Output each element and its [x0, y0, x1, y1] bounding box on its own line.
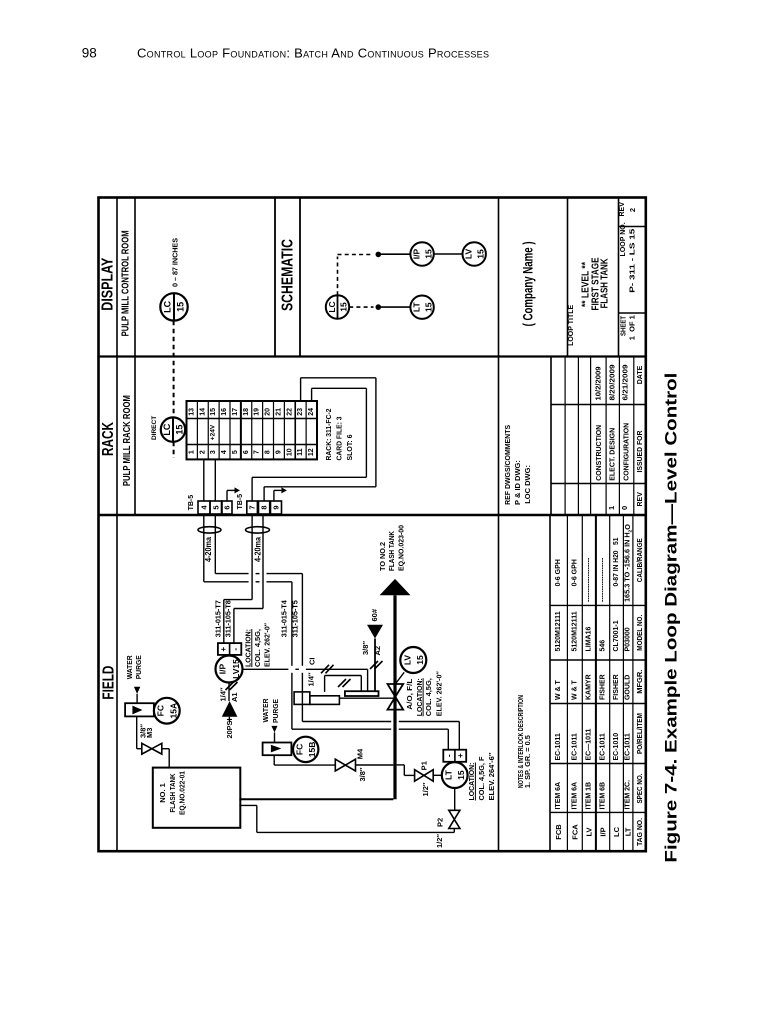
svg-text:22: 22 — [286, 408, 293, 416]
svg-text:I/P: I/P — [412, 248, 422, 259]
svg-text:21: 21 — [275, 408, 282, 416]
svg-text:ELECT. DESIGN: ELECT. DESIGN — [610, 428, 617, 481]
svg-text:Control Loop Foundation: Batch: Control Loop Foundation: Batch And Conti… — [137, 45, 489, 60]
svg-text:0 – 87 INCHES: 0 – 87 INCHES — [171, 238, 180, 287]
svg-text:-------------------: ------------------- — [586, 557, 593, 602]
svg-text:TAG NO.: TAG NO. — [635, 818, 644, 846]
svg-text:FIELD: FIELD — [100, 666, 117, 700]
svg-text:-: - — [231, 648, 240, 651]
svg-text:FISHER: FISHER — [613, 674, 620, 700]
svg-text:3: 3 — [210, 450, 217, 454]
svg-text:311-015-T4: 311-015-T4 — [282, 600, 289, 637]
svg-text:15: 15 — [456, 770, 466, 780]
svg-text:15A: 15A — [168, 703, 178, 719]
svg-text:1: 1 — [188, 450, 195, 454]
svg-text:0-6 GPH: 0-6 GPH — [571, 559, 578, 586]
svg-text:FLASH TANK: FLASH TANK — [168, 773, 177, 812]
svg-text:ELEV. 264'-6″: ELEV. 264'-6″ — [487, 752, 496, 800]
svg-text:REF DWGS/COMMENTS: REF DWGS/COMMENTS — [503, 425, 512, 505]
svg-text:SHEET: SHEET — [621, 315, 628, 336]
svg-text:165.3 TO -156.6 IN H2O: 165.3 TO -156.6 IN H2O — [625, 523, 632, 602]
svg-text:10/2/2009: 10/2/2009 — [595, 366, 602, 400]
svg-text:DIRECT: DIRECT — [151, 416, 158, 440]
svg-text:RACK: RACK — [100, 422, 117, 456]
svg-text:9: 9 — [275, 450, 282, 454]
svg-text:CALIB/RANGE: CALIB/RANGE — [635, 538, 644, 582]
svg-text:1/4″: 1/4″ — [307, 672, 316, 686]
svg-text:7: 7 — [248, 505, 257, 509]
svg-text:18: 18 — [243, 408, 250, 416]
svg-text:KAMYR: KAMYR — [586, 674, 593, 700]
svg-text:5120M12111: 5120M12111 — [571, 611, 578, 651]
svg-text:ITEM 2C.: ITEM 2C. — [625, 780, 632, 810]
svg-text:16: 16 — [221, 408, 228, 416]
svg-text:EC-1011: EC-1011 — [599, 733, 606, 760]
svg-text:LC: LC — [327, 301, 337, 312]
svg-text:MODEL NO.: MODEL NO. — [635, 615, 644, 651]
svg-text:P2: P2 — [435, 818, 444, 827]
svg-text:CONSTRUCTION: CONSTRUCTION — [596, 425, 603, 481]
svg-text:A2: A2 — [373, 646, 382, 656]
svg-text:LC: LC — [163, 300, 173, 312]
svg-text:19: 19 — [254, 408, 261, 416]
svg-text:SLOT: 6: SLOT: 6 — [345, 435, 354, 461]
svg-text:11: 11 — [297, 448, 304, 456]
svg-text:LOOP TITLE: LOOP TITLE — [568, 304, 575, 345]
svg-text:P1: P1 — [420, 761, 429, 770]
svg-text:0: 0 — [620, 506, 629, 510]
svg-text:ITEM 6A: ITEM 6A — [555, 782, 562, 810]
svg-text:ELEV. 262'-0″: ELEV. 262'-0″ — [263, 623, 272, 667]
svg-text:P- 311 - LS 15: P- 311 - LS 15 — [628, 229, 637, 293]
svg-text:4: 4 — [221, 450, 228, 454]
svg-text:15: 15 — [475, 249, 485, 259]
svg-text:CONFIGURATION: CONFIGURATION — [623, 423, 630, 481]
svg-text:LV: LV — [585, 827, 594, 836]
svg-text:PULP MILL RACK ROOM: PULP MILL RACK ROOM — [122, 395, 133, 486]
svg-text:4-20ma: 4-20ma — [204, 537, 213, 562]
svg-text:10: 10 — [286, 448, 293, 456]
svg-text:15: 15 — [423, 302, 433, 312]
svg-text:6: 6 — [243, 450, 250, 454]
svg-text:LOOP NO.: LOOP NO. — [620, 222, 627, 256]
svg-text:EC-1010: EC-1010 — [613, 733, 620, 761]
svg-text:SPEC NO.: SPEC NO. — [635, 774, 644, 804]
svg-text:311-105-T5: 311-105-T5 — [293, 600, 300, 637]
svg-text:12: 12 — [308, 448, 315, 456]
svg-text:5120M12111: 5120M12111 — [555, 611, 562, 651]
svg-text:LT: LT — [624, 827, 633, 836]
svg-text:MFGR.: MFGR. — [635, 670, 644, 694]
svg-text:ELEV. 262'-0″: ELEV. 262'-0″ — [435, 671, 444, 716]
svg-text:LV15: LV15 — [231, 659, 241, 679]
svg-text:EQ.NO.023-00: EQ.NO.023-00 — [397, 525, 406, 571]
svg-text:LV: LV — [402, 655, 412, 666]
svg-text:REV: REV — [637, 492, 644, 507]
svg-text:15: 15 — [423, 249, 433, 259]
svg-text:M3: M3 — [145, 728, 154, 738]
svg-text:Figure 7-4. Example Loop Diagr: Figure 7-4. Example Loop Diagram—Level C… — [662, 373, 681, 863]
svg-text:LT: LT — [412, 302, 422, 313]
svg-text:FLASH TANK: FLASH TANK — [600, 258, 611, 309]
svg-text:3/8″: 3/8″ — [361, 641, 370, 655]
svg-text:-: - — [445, 754, 454, 757]
svg-text:20: 20 — [265, 408, 272, 416]
svg-text:LOCATION:: LOCATION: — [467, 763, 476, 801]
svg-text:RACK: 311-FC-2: RACK: 311-FC-2 — [324, 409, 333, 461]
svg-text:311-105-T8: 311-105-T8 — [226, 600, 233, 637]
svg-text:A/O, F/L: A/O, F/L — [405, 678, 414, 709]
svg-text:CL7001-1: CL7001-1 — [613, 620, 620, 651]
svg-text:FCB: FCB — [554, 824, 563, 840]
svg-text:M4: M4 — [356, 748, 365, 759]
svg-text:23: 23 — [297, 408, 304, 416]
svg-text:FLASH TANK: FLASH TANK — [387, 531, 396, 571]
svg-text:NO. 1: NO. 1 — [158, 783, 167, 803]
svg-text:1 OF 1: 1 OF 1 — [628, 315, 637, 340]
svg-text:FC: FC — [295, 744, 305, 755]
svg-text:ITEM 6A: ITEM 6A — [571, 782, 578, 810]
svg-text:W & T: W & T — [555, 679, 562, 700]
svg-text:14: 14 — [199, 408, 206, 416]
svg-text:FC: FC — [156, 705, 166, 716]
svg-text:20PSI: 20PSI — [225, 719, 234, 739]
svg-text:LOC DWG:: LOC DWG: — [523, 465, 532, 504]
svg-text:2: 2 — [628, 208, 637, 212]
svg-text:WATER: WATER — [125, 655, 134, 680]
svg-text:7: 7 — [254, 450, 261, 454]
svg-text:0-6 GPH: 0-6 GPH — [555, 559, 562, 586]
svg-text:LV: LV — [464, 249, 474, 260]
svg-text:EC—1011: EC—1011 — [586, 728, 593, 760]
svg-text:1/4″: 1/4″ — [219, 687, 228, 701]
svg-text:EC-1011: EC-1011 — [555, 733, 562, 760]
svg-text:LC: LC — [162, 423, 172, 435]
svg-text:I/P: I/P — [218, 663, 228, 674]
svg-text:LOCATION:: LOCATION: — [244, 629, 253, 667]
svg-text:PULP MILL CONTROL ROOM: PULP MILL CONTROL ROOM — [121, 230, 132, 336]
svg-text:CI: CI — [308, 658, 317, 666]
svg-text:8/20/2009: 8/20/2009 — [610, 364, 617, 400]
svg-text:3/8″: 3/8″ — [358, 767, 367, 781]
svg-text:LC: LC — [612, 826, 621, 837]
svg-text:COL. 4,5G,: COL. 4,5G, — [253, 629, 262, 667]
svg-text:A1: A1 — [230, 692, 239, 702]
svg-text:0-87 IN H20 51: 0-87 IN H20 51 — [613, 537, 620, 586]
svg-text:SCHEMATIC: SCHEMATIC — [280, 239, 297, 311]
svg-text:FISHER: FISHER — [599, 674, 606, 700]
svg-text:CARD FILE: 3: CARD FILE: 3 — [335, 417, 344, 461]
svg-text:60#: 60# — [370, 608, 379, 621]
svg-text:8: 8 — [265, 450, 272, 454]
svg-text:13: 13 — [188, 408, 195, 416]
svg-text:TB-5: TB-5 — [188, 495, 195, 511]
svg-text:1. SP. GR. = 0.5: 1. SP. GR. = 0.5 — [523, 735, 532, 788]
svg-text:9: 9 — [272, 505, 281, 509]
svg-text:17: 17 — [232, 408, 239, 416]
svg-text:( Company Name ): ( Company Name ) — [519, 241, 535, 326]
svg-text:LIMA16: LIMA16 — [586, 627, 593, 652]
svg-text:ISSUED FOR: ISSUED FOR — [637, 431, 644, 473]
svg-text:TO NO.2: TO NO.2 — [378, 542, 387, 571]
svg-text:5: 5 — [232, 450, 239, 454]
svg-text:P & ID DWG:: P & ID DWG: — [513, 460, 522, 505]
svg-text:24: 24 — [308, 408, 315, 416]
svg-text:6: 6 — [223, 505, 232, 509]
svg-text:W & T: W & T — [571, 679, 578, 700]
svg-text:15B: 15B — [307, 742, 317, 758]
svg-text:ITEM 1B: ITEM 1B — [586, 782, 593, 810]
svg-text:I/P: I/P — [598, 827, 607, 836]
svg-text:546: 546 — [599, 640, 606, 652]
svg-text:P03000: P03000 — [625, 627, 632, 651]
svg-text:4-20ma: 4-20ma — [253, 537, 262, 562]
svg-text:COL. 4,5G, F: COL. 4,5G, F — [477, 756, 486, 800]
svg-text:LOCATION:: LOCATION: — [415, 678, 424, 716]
svg-text:15: 15 — [339, 302, 349, 312]
svg-text:15: 15 — [415, 655, 425, 665]
svg-text:+: + — [219, 647, 228, 652]
svg-text:8: 8 — [260, 505, 269, 509]
svg-text:1/2″: 1/2″ — [421, 782, 430, 796]
svg-text:+24V: +24V — [209, 424, 216, 440]
svg-text:15: 15 — [210, 408, 217, 416]
svg-text:EC-1011: EC-1011 — [571, 733, 578, 760]
svg-text:+: + — [456, 753, 465, 758]
svg-text:PO/REL/ITEM: PO/REL/ITEM — [635, 713, 644, 754]
svg-text:TB-5: TB-5 — [237, 494, 244, 510]
svg-text:15: 15 — [176, 302, 186, 312]
svg-text:98: 98 — [82, 46, 97, 61]
svg-text:6/21/2009: 6/21/2009 — [623, 364, 630, 400]
svg-text:EC-1011: EC-1011 — [625, 733, 632, 760]
svg-text:1: 1 — [607, 506, 616, 510]
svg-text:ITEM 6B: ITEM 6B — [599, 782, 606, 810]
svg-text:REV: REV — [619, 202, 626, 217]
svg-text:15: 15 — [174, 425, 184, 435]
svg-text:311-015-T7: 311-015-T7 — [215, 600, 222, 637]
svg-text:DISPLAY: DISPLAY — [99, 257, 116, 310]
svg-text:2: 2 — [199, 450, 206, 454]
svg-text:WATER: WATER — [261, 698, 270, 723]
svg-text:PURGE: PURGE — [271, 699, 280, 723]
svg-text:GOULD: GOULD — [625, 675, 632, 700]
svg-text:EQ.NO.022-01: EQ.NO.022-01 — [178, 771, 187, 815]
svg-text:LT: LT — [444, 769, 454, 780]
svg-text:DATE: DATE — [637, 365, 644, 384]
svg-text:COL. 4,5G,: COL. 4,5G, — [424, 678, 433, 716]
svg-text:1/2″: 1/2″ — [435, 834, 444, 848]
svg-text:PURGE: PURGE — [134, 655, 143, 679]
svg-text:5: 5 — [211, 505, 220, 509]
svg-text:-------------------: ------------------- — [599, 557, 606, 602]
svg-text:FCA: FCA — [570, 824, 579, 840]
